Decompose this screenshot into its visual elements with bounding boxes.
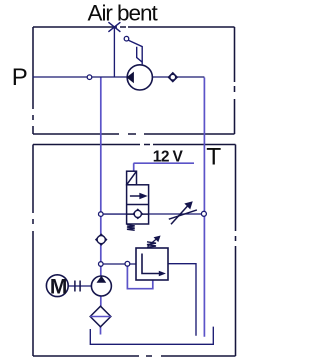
svg-text:T: T: [206, 144, 221, 171]
svg-text:M: M: [50, 275, 68, 298]
svg-text:Air bent: Air bent: [88, 0, 159, 25]
svg-text:12 V: 12 V: [153, 148, 184, 165]
svg-text:P: P: [12, 64, 28, 91]
